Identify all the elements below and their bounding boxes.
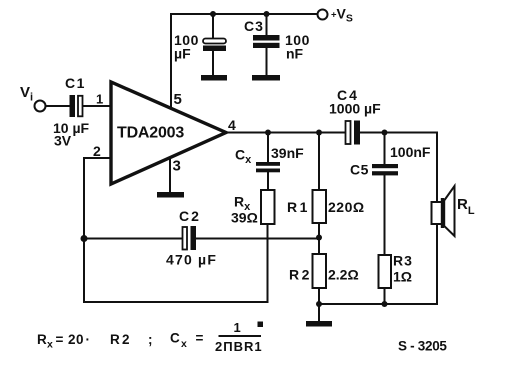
wire R3 bottom stub bbox=[384, 288, 386, 304]
svg-text:S - 3205: S - 3205 bbox=[398, 339, 447, 354]
op-amp U1 TDA2003 triangle bbox=[111, 82, 226, 184]
svg-text:2.2Ω: 2.2Ω bbox=[328, 267, 359, 283]
ground under R2 bbox=[306, 321, 332, 327]
capacitor C3 plates bbox=[253, 35, 280, 48]
svg-text:µF: µF bbox=[174, 46, 191, 62]
svg-text:nF: nF bbox=[286, 46, 304, 62]
svg-text:1: 1 bbox=[96, 92, 103, 107]
terminal Vi input circle bbox=[35, 101, 46, 112]
wire C5 to R3 bbox=[384, 176, 386, 255]
svg-text:100nF: 100nF bbox=[390, 144, 431, 160]
formula Cx = bbox=[170, 331, 204, 351]
wire R2 bottom stub bbox=[318, 288, 320, 304]
junction dots bbox=[210, 11, 216, 17]
svg-text:=: = bbox=[56, 332, 64, 347]
wire bottom-right rail bbox=[319, 303, 437, 305]
svg-text:39Ω: 39Ω bbox=[231, 210, 258, 226]
wire top +Vs rail bbox=[171, 13, 317, 15]
svg-text:3V: 3V bbox=[54, 133, 72, 149]
wire Cx top stub bbox=[267, 133, 269, 163]
wire C3 top stub bbox=[266, 14, 268, 35]
svg-text:C: C bbox=[170, 331, 180, 346]
wire pin3 vertical bbox=[169, 158, 171, 192]
svg-text:R3: R3 bbox=[393, 253, 413, 269]
wire feedback horizontal with C2 bbox=[84, 238, 182, 240]
svg-text:220Ω: 220Ω bbox=[328, 199, 365, 215]
svg-text:R2: R2 bbox=[289, 267, 312, 283]
ground under 100uF bbox=[201, 75, 227, 81]
svg-text:470 µF: 470 µF bbox=[166, 252, 217, 268]
svg-text:TDA2003: TDA2003 bbox=[117, 125, 184, 142]
wire 100uF bottom stub bbox=[212, 51, 214, 76]
capacitor Cx plates bbox=[256, 162, 280, 172]
capacitor C5 plates bbox=[372, 164, 398, 175]
wire R1 top stub bbox=[318, 133, 320, 191]
capacitor 100uF electrolytic plates bbox=[203, 39, 226, 52]
wire pin2 stub bbox=[84, 157, 111, 159]
svg-text:1000 µF: 1000 µF bbox=[329, 101, 381, 117]
wire R2 ground stub bbox=[318, 304, 320, 321]
wire C4 to corner bbox=[360, 132, 437, 134]
resistor Rx bbox=[261, 190, 275, 224]
svg-text:C1: C1 bbox=[65, 75, 86, 91]
ground under C3 bbox=[252, 75, 280, 81]
wire C5 top stub bbox=[384, 133, 386, 165]
wire C1 to pin1 bbox=[83, 105, 111, 107]
svg-text:R: R bbox=[37, 332, 47, 347]
svg-text:1Ω: 1Ω bbox=[393, 269, 412, 285]
wire R1 bottom to junction bbox=[318, 223, 320, 254]
ground under pin 3 bbox=[157, 192, 184, 198]
formula Rx = 20 R2 bbox=[37, 332, 130, 351]
formula fraction bar bbox=[219, 335, 262, 337]
svg-text:·: · bbox=[86, 332, 91, 347]
svg-text:;: ; bbox=[148, 332, 153, 347]
wire output pin4 to C4 bbox=[226, 132, 345, 134]
wire pin2 vertical bbox=[83, 158, 85, 239]
wire C3 bottom stub bbox=[266, 48, 268, 76]
svg-text:x: x bbox=[47, 339, 53, 351]
svg-text:39nF: 39nF bbox=[271, 145, 304, 161]
svg-text:=: = bbox=[196, 331, 204, 346]
svg-text:1: 1 bbox=[234, 320, 241, 335]
speaker RL bbox=[432, 186, 455, 236]
resistor R2 bbox=[313, 254, 327, 288]
svg-text:20: 20 bbox=[68, 332, 84, 347]
svg-text:C5: C5 bbox=[350, 162, 369, 178]
wire 100uF top stub bbox=[212, 14, 214, 39]
resistor R1 bbox=[313, 190, 327, 223]
svg-text:x: x bbox=[181, 338, 187, 350]
terminal +Vs circle bbox=[318, 10, 328, 20]
svg-text:5: 5 bbox=[174, 91, 182, 108]
svg-text:2ΠBR1: 2ΠBR1 bbox=[215, 339, 263, 354]
svg-text:C2: C2 bbox=[179, 208, 201, 224]
svg-text:R1: R1 bbox=[287, 199, 310, 215]
formula asterisk mark bbox=[258, 322, 264, 328]
svg-text:4: 4 bbox=[228, 117, 236, 133]
wire bottom-left loop bbox=[84, 224, 268, 302]
wire input to C1 bbox=[46, 105, 69, 107]
capacitor C1 plates bbox=[70, 95, 83, 117]
wire speaker bottom vertical bbox=[436, 224, 438, 304]
wire speaker top vertical bbox=[436, 133, 438, 203]
svg-text:C3: C3 bbox=[244, 18, 264, 34]
resistor R3 bbox=[379, 255, 392, 288]
svg-text:2: 2 bbox=[122, 332, 130, 347]
capacitor C4 plates bbox=[346, 121, 361, 145]
svg-text:R: R bbox=[110, 332, 120, 347]
svg-text:3: 3 bbox=[173, 158, 181, 175]
svg-text:2: 2 bbox=[93, 143, 101, 159]
wire Cx to Rx bbox=[267, 172, 269, 190]
capacitor C2 plates bbox=[183, 226, 197, 250]
wire pin5 vertical bbox=[170, 14, 172, 109]
